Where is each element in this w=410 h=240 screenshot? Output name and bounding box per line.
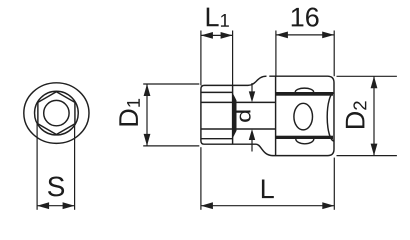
L extension line right (333, 158, 335, 210)
D1 dimension line (146, 84, 148, 146)
D2 extension line top (337, 75, 397, 77)
S extension line right (74, 124, 76, 210)
D2 arrow bottom (371, 144, 378, 156)
D1 extension line top (143, 83, 199, 85)
D2 extension line bottom (337, 155, 397, 157)
top fillet (248, 76, 267, 85)
front view hex socket opening (38, 92, 75, 135)
L arrow left (201, 202, 213, 209)
D2 dimension line (373, 76, 375, 155)
head face right edge line (232, 85, 234, 144)
label L (262, 180, 274, 199)
neck line top (d) (201, 101, 276, 103)
L1 extension line right (232, 31, 234, 86)
D1 extension line bottom (143, 145, 199, 147)
L1 arrow right (221, 32, 233, 39)
d dimension line bottom (251, 139, 253, 151)
d arrow top (249, 91, 255, 102)
d dimension line top (251, 83, 253, 92)
head chamfer line top (201, 91, 233, 93)
neck line bottom (d) (201, 128, 276, 130)
16 arrow right (322, 32, 334, 39)
front view chamfer circle (35, 91, 79, 135)
square hole band bottom (276, 136, 333, 139)
chamfer band (233, 93, 237, 138)
L extension line left (200, 147, 202, 210)
L1 extension line left (200, 31, 202, 86)
label d (236, 110, 251, 121)
head chamfer line bottom (201, 138, 233, 140)
d arrow bottom (249, 129, 255, 140)
square hole band top (276, 92, 333, 96)
pin hole ellipse (294, 103, 313, 130)
label L1 (207, 8, 229, 27)
label D1 (119, 99, 139, 126)
D1 arrow bottom (144, 134, 151, 146)
L dimension line (201, 205, 334, 207)
pin hole top arc (295, 88, 313, 92)
L1 dimension line (201, 34, 233, 36)
bottom fillet (256, 144, 273, 155)
body left face line (275, 77, 277, 156)
pin hole bottom arc (296, 139, 314, 144)
16 dimension line (276, 34, 334, 36)
S arrow left (37, 202, 49, 209)
16 extension line right (333, 31, 335, 77)
L arrow right (322, 202, 334, 209)
D1 arrow top (144, 84, 151, 96)
front view outer circle D1 (24, 83, 89, 144)
L1 arrow left (201, 32, 213, 39)
front view inner hole circle (44, 100, 69, 125)
S extension line left (36, 124, 38, 210)
16 arrow left (276, 32, 288, 39)
label S (48, 177, 64, 197)
far side hole arc (327, 93, 334, 141)
head outline (D1 cylinder) (201, 85, 256, 144)
S dimension line (37, 205, 75, 207)
16 extension line left (275, 31, 277, 77)
D2 arrow top (371, 76, 378, 88)
label D2 (346, 101, 366, 128)
label 16 (292, 8, 319, 27)
S arrow right (63, 202, 75, 209)
body outline (269, 76, 334, 155)
